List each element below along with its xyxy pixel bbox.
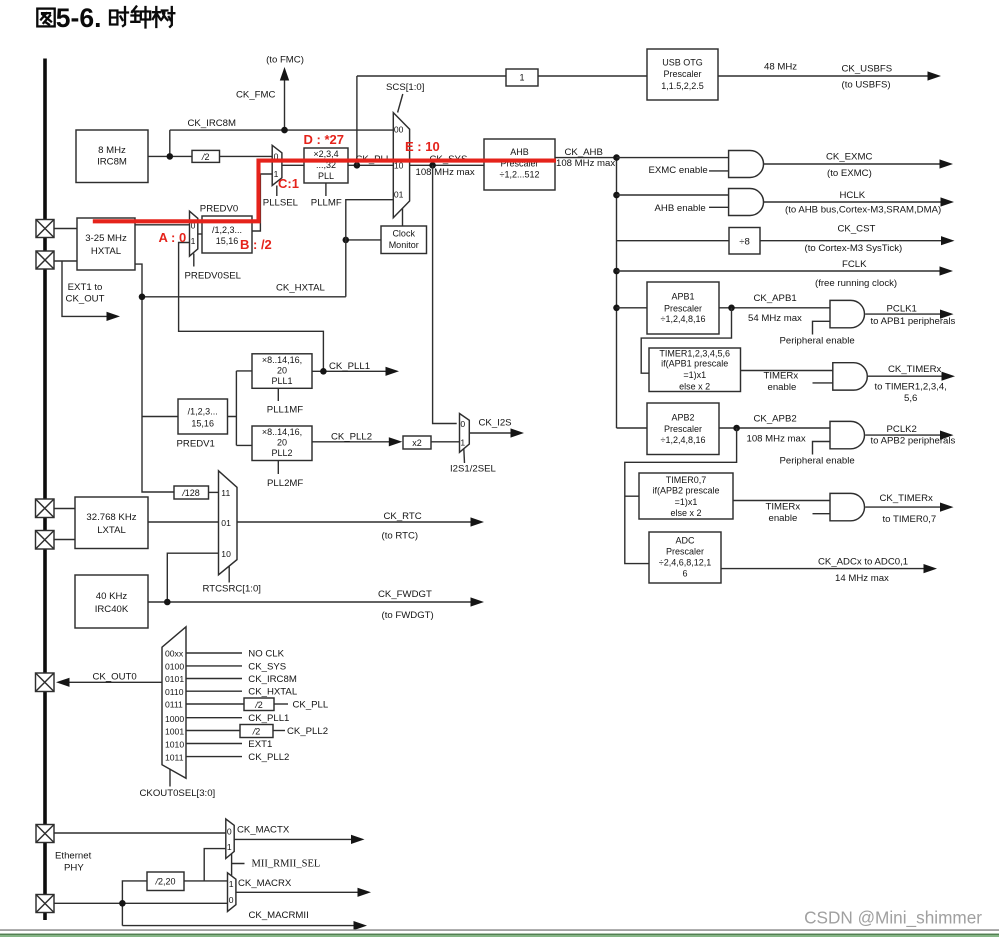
svg-text:HCLK: HCLK (840, 190, 866, 201)
mux MACTX (226, 819, 234, 859)
oscillator LXTAL box (75, 497, 148, 549)
gate EXMC AND (729, 151, 764, 178)
junction CK_APB2 tee (733, 425, 740, 432)
svg-text:/2: /2 (201, 152, 210, 162)
svg-text:to TIMER0,7: to TIMER0,7 (883, 514, 937, 525)
arrow PCLK2 (940, 431, 954, 440)
svg-text:×2,3,4: ×2,3,4 (313, 149, 338, 159)
svg-text:1: 1 (519, 73, 524, 83)
wire CK_ADC (721, 568, 924, 570)
svg-text:Prescaler: Prescaler (664, 303, 702, 313)
wire PREDV0SEL stub (193, 254, 195, 267)
svg-text:54 MHz max: 54 MHz max (748, 313, 802, 324)
wire CKOUT input CK_PLL2 (186, 756, 242, 758)
wire AHB trunk (616, 158, 618, 428)
svg-text:CK_IRC8M: CK_IRC8M (248, 674, 297, 685)
wire /128 to RTC mux input 11 (209, 491, 219, 493)
arrow CK_FWDGT (471, 597, 485, 606)
wire CKOUT input EXT1 (186, 743, 242, 745)
wire LXTAL pad1 (45, 508, 75, 510)
wire CK_TIMERx 1 (868, 375, 942, 377)
svg-text:CK_FMC: CK_FMC (236, 90, 276, 101)
svg-text:Prescaler: Prescaler (664, 424, 702, 434)
pad LXTAL pad2 (36, 531, 55, 550)
svg-text:(to AHB bus,Cortex-M3,SRAM,DMA: (to AHB bus,Cortex-M3,SRAM,DMA) (785, 205, 941, 216)
wire APB1 input (617, 307, 648, 309)
wire LXTAL to RTC mux input 01 (148, 521, 219, 523)
arrow EXT1 to CK_OUT (107, 312, 121, 321)
svg-text:if(APB1 prescale: if(APB1 prescale (661, 359, 728, 369)
mux RTCSRC (219, 471, 238, 575)
svg-text:SCS[1:0]: SCS[1:0] (386, 82, 424, 93)
svg-text:APB2: APB2 (671, 413, 694, 423)
svg-text:NO CLK: NO CLK (248, 649, 284, 660)
wire CK_MACRX (236, 891, 358, 893)
svg-text:CK_APB1: CK_APB1 (754, 293, 797, 304)
svg-text:(to Cortex-M3 SysTick): (to Cortex-M3 SysTick) (805, 243, 903, 254)
prescaler ADC box (649, 532, 721, 583)
svg-text:40 KHz: 40 KHz (96, 591, 128, 602)
wire CK_MACRMII (122, 925, 354, 927)
wire EXMC enable stub (709, 170, 729, 172)
svg-text:CK_MACRX: CK_MACRX (238, 878, 292, 889)
wire CK_MACTX (234, 838, 351, 840)
arrow HCLK (941, 197, 955, 206)
svg-text:6: 6 (682, 569, 687, 579)
wire CK_HXTAL horizontal (142, 296, 346, 298)
svg-text:(to EXMC): (to EXMC) (827, 168, 872, 179)
svg-text:=1)x1: =1)x1 (683, 370, 706, 380)
svg-text:CK_MACTX: CK_MACTX (237, 824, 290, 835)
wire CK_APB2 (719, 427, 830, 429)
svg-text:PREDV0SEL: PREDV0SEL (185, 271, 242, 282)
svg-text:D : *27: D : *27 (304, 132, 344, 147)
wire LXTAL pad2 (45, 539, 75, 541)
svg-text:1: 1 (191, 236, 196, 246)
wire SCS output CK_SYS (410, 164, 484, 166)
wire AHB enable stub (709, 206, 729, 208)
arrow CK_I2S (511, 428, 525, 437)
mux MACRX (228, 873, 236, 912)
oscillator HXTAL box (77, 218, 135, 270)
wire CKOUT input CK_HXTAL (186, 690, 242, 692)
svg-text:0: 0 (460, 419, 465, 429)
svg-text:TIMER0,7: TIMER0,7 (666, 475, 707, 485)
svg-text:to APB1 peripherals: to APB1 peripherals (871, 316, 956, 327)
svg-text:Peripheral enable: Peripheral enable (780, 336, 855, 347)
wire CK_APB2 to lower boxes (625, 428, 737, 564)
wire PLLSEL select stub (276, 186, 278, 197)
svg-text:0: 0 (227, 826, 232, 836)
wire TIMERx enable stub 1 (813, 382, 833, 384)
svg-text:CK_ADCx to ADC0,1: CK_ADCx to ADC0,1 (818, 557, 908, 568)
junction FCLK tee (613, 268, 620, 275)
pad HXTAL pad1 (36, 220, 54, 238)
arrow CK_USBFS (928, 71, 942, 80)
wire USB top run (357, 75, 506, 77)
junction CK_SYS I2S tee (429, 162, 436, 169)
svg-text:CK_HXTAL: CK_HXTAL (276, 283, 326, 294)
wire CK_USBFS (718, 75, 928, 77)
glyph 钟 (131, 7, 150, 28)
svg-text:÷1,2,4,8,16: ÷1,2,4,8,16 (661, 314, 706, 324)
svg-text:PHY: PHY (64, 863, 84, 874)
wire x2 to I2S mux input 1 (431, 441, 460, 443)
arrow CK_PLL1 (386, 367, 400, 376)
svg-text:/1,2,3...: /1,2,3... (212, 225, 242, 235)
title 图5-6. 时钟树 (hand-drawn CJK glyphs) (37, 7, 174, 28)
svg-text:=1)x1: =1)x1 (675, 497, 698, 507)
junction AHB enable tee (613, 192, 620, 199)
pad CK_OUT0 (36, 673, 55, 692)
oscillator IRC8M box (76, 130, 148, 183)
gate AHB AND (729, 189, 764, 216)
wire EXT1 annotation (62, 261, 108, 316)
divider /2 box (192, 150, 220, 162)
junction IRC8M tee (167, 153, 174, 160)
svg-text:/2: /2 (254, 700, 263, 710)
wire HXTAL out1 to PREDV0 input 0 (135, 224, 190, 226)
svg-text:PREDV0: PREDV0 (200, 204, 238, 215)
arrow CK_CST (941, 236, 955, 245)
svg-text:Prescaler: Prescaler (666, 547, 704, 557)
svg-text:÷1,2...512: ÷1,2...512 (500, 170, 540, 180)
arrow CK_PLL2 into x2 (389, 437, 403, 446)
svg-text:CK_PLL2: CK_PLL2 (287, 726, 328, 737)
wire CK_FWDGT (148, 601, 471, 603)
svg-text:48 MHz: 48 MHz (764, 62, 797, 73)
wire USB riser (356, 76, 358, 165)
mux PLLSEL (272, 145, 282, 185)
pll PLL2 box (252, 426, 312, 461)
divider /2,20 box (147, 872, 184, 891)
svg-text:1011: 1011 (165, 752, 184, 762)
wire CK_EXMC (764, 163, 941, 165)
svg-text:EXMC enable: EXMC enable (649, 165, 708, 176)
wire HXTAL out2 drop (135, 264, 174, 492)
svg-text:CK_CST: CK_CST (838, 224, 876, 235)
svg-text:/128: /128 (181, 488, 200, 498)
svg-text:enable: enable (768, 382, 797, 393)
mux CKOUT0SEL (162, 627, 186, 779)
junction CK_PLL1 tee (320, 368, 327, 375)
svg-text:RTCSRC[1:0]: RTCSRC[1:0] (203, 584, 261, 595)
prescaler APB2 box (647, 403, 719, 455)
wire CKOUT input CK_SYS (186, 665, 242, 667)
wire peripheral enable 1 (813, 321, 831, 334)
svg-text:ADC: ADC (675, 536, 695, 546)
svg-text:to APB2 peripherals: to APB2 peripherals (871, 436, 956, 447)
pad ETH pad1 (36, 825, 54, 843)
junction CK_APB1 tee (728, 305, 735, 312)
svg-text:1010: 1010 (165, 740, 184, 750)
wire /2 to CK_PLL label (274, 703, 288, 705)
wire TIMER1 output (741, 370, 833, 372)
svg-text:PCLK2: PCLK2 (887, 424, 917, 435)
wire PLL2MF stub (277, 461, 279, 475)
svg-text:PLL1: PLL1 (271, 376, 292, 386)
svg-text:CK_AHB: CK_AHB (565, 147, 603, 158)
junction CK_PLL USB tee (354, 162, 361, 169)
wire PLLMF stub (325, 183, 327, 196)
wire CK_RTC (237, 521, 471, 523)
svg-text:/1,2,3...: /1,2,3... (188, 407, 218, 417)
svg-text:0111: 0111 (165, 700, 183, 710)
svg-text:(to USBFS): (to USBFS) (842, 80, 891, 91)
pll PLL1 box (252, 354, 312, 389)
wire CK_SYS drop to I2S mux (433, 165, 457, 423)
svg-text:if(APB2 prescale: if(APB2 prescale (652, 486, 719, 496)
svg-text:(to FMC): (to FMC) (266, 55, 304, 66)
wire div8 input (617, 240, 730, 242)
svg-text:1001: 1001 (165, 727, 184, 737)
svg-text:IRC8M: IRC8M (97, 157, 127, 168)
svg-text:(free running clock): (free running clock) (815, 278, 897, 289)
wire clock monitor left input (346, 239, 381, 241)
svg-text:0100: 0100 (165, 662, 184, 672)
glyph 时 (110, 7, 128, 26)
svg-text:0110: 0110 (165, 687, 184, 697)
svg-text:/2: /2 (252, 727, 261, 737)
wire CK_HXTAL riser to SCS input 01 (346, 200, 394, 297)
svg-text:×8..14,16,: ×8..14,16, (262, 355, 302, 365)
svg-text:00: 00 (394, 124, 404, 134)
wire /2,20 output to MACRX input 1 (184, 880, 228, 882)
pll PLL box (304, 148, 348, 183)
svg-text:CK_PLL: CK_PLL (293, 700, 329, 711)
svg-text:×8..14,16,: ×8..14,16, (262, 427, 302, 437)
svg-text:CK_I2S: CK_I2S (479, 418, 512, 429)
divider 1 box (506, 69, 538, 86)
junction trunk top (613, 154, 620, 161)
divider PREDV0 box (202, 216, 252, 253)
svg-text:CK_FWDGT: CK_FWDGT (378, 589, 432, 600)
wire TIMER07 output (733, 500, 830, 502)
svg-text:0: 0 (229, 895, 234, 905)
wire peripheral enable 2 (813, 442, 831, 455)
svg-text:CK_RTC: CK_RTC (384, 511, 422, 522)
prescaler USB OTG box (647, 49, 718, 100)
wire APB2 input (617, 427, 648, 429)
wire MII_RMII_SEL select chain (232, 854, 245, 876)
wire CK_APB1 to TIMER1 box (641, 308, 731, 373)
wire ETH pad2 to MACRX mux input 0 (45, 902, 228, 904)
wire PREDV0 input 1 feed from CK_PLL1 (179, 243, 324, 372)
svg-text:FCLK: FCLK (842, 259, 867, 270)
wire PREDV1 output split (228, 371, 253, 446)
gate PCLK1 AND (830, 300, 865, 327)
svg-text:32.768 KHz: 32.768 KHz (86, 512, 136, 523)
junction IRC40K tee (164, 599, 171, 606)
svg-text:CK_USBFS: CK_USBFS (842, 63, 893, 74)
svg-text:14 MHz max: 14 MHz max (835, 573, 889, 584)
wire CKOUT input CK_IRC8M (186, 678, 242, 680)
wire red highlight path A-B-C-D-E (93, 161, 556, 222)
wire CK_OUT0 (66, 681, 162, 683)
svg-text:AHB: AHB (510, 147, 529, 157)
wire TIMERx enable stub 2 (813, 513, 831, 515)
arrow CK_MACRMII (354, 921, 368, 930)
svg-text:Prescaler: Prescaler (663, 69, 701, 79)
prescaler AHB box (484, 139, 555, 190)
pad LXTAL pad1 (36, 499, 55, 518)
svg-text:(to RTC): (to RTC) (382, 531, 419, 542)
wire AHB gate input A (617, 194, 730, 196)
glyph 图 (37, 9, 54, 27)
svg-text:I2S1/2SEL: I2S1/2SEL (450, 463, 497, 474)
svg-text:108 MHz max: 108 MHz max (556, 158, 615, 169)
svg-text:CK_SYS: CK_SYS (248, 661, 286, 672)
wire CK_IRC8M riser (169, 130, 171, 156)
wire CK_PLL2 to x2 (312, 441, 390, 443)
wire SCS select stub (398, 94, 403, 113)
svg-text:HXTAL: HXTAL (91, 246, 122, 257)
wire CK_PLL1 (312, 370, 386, 372)
wire CKOUT input CK_PLL2 div2 (186, 730, 240, 732)
svg-text:(to FWDGT): (to FWDGT) (382, 610, 434, 621)
oscillator IRC40K box (75, 575, 148, 628)
svg-text:CK_PLL1: CK_PLL1 (248, 713, 289, 724)
svg-text:APB1: APB1 (671, 292, 694, 302)
svg-text:TIMERx: TIMERx (766, 502, 801, 513)
wire PLL1MF stub (277, 388, 279, 401)
svg-text:TIMERx: TIMERx (764, 371, 799, 382)
arrow CK_MACTX (351, 835, 365, 844)
svg-text:A : 0: A : 0 (159, 230, 187, 245)
svg-text:CK_EXMC: CK_EXMC (826, 152, 872, 163)
svg-text:1000: 1000 (165, 714, 184, 724)
pad ETH pad2 (36, 895, 54, 913)
svg-text:01: 01 (394, 190, 404, 200)
multiplier x2 box (403, 436, 431, 449)
wire CKOUT input CK_PLL1 (186, 717, 242, 719)
svg-text:TIMER1,2,3,4,5,6: TIMER1,2,3,4,5,6 (659, 348, 730, 358)
junction clock monitor tee (343, 237, 350, 244)
svg-text:CKOUT0SEL[3:0]: CKOUT0SEL[3:0] (140, 788, 216, 799)
timer TIMER07 box (639, 473, 733, 519)
svg-text:15,16: 15,16 (216, 236, 239, 246)
svg-text:PLL: PLL (318, 171, 334, 181)
wire CKOUT input CK_PLL div2 (186, 703, 244, 705)
wire ETH pad1 to MACTX mux input 0 (45, 832, 226, 834)
glyph 树 (153, 7, 175, 27)
svg-text:USB OTG: USB OTG (662, 57, 703, 67)
wire MACTX input 1 feed (204, 849, 226, 881)
footer dark green rule (0, 934, 999, 935)
junction CK_FMC tee (281, 127, 288, 134)
arrow CK_TIMERx 1 (942, 372, 956, 381)
wire EXMC gate input A (617, 157, 730, 159)
wire SCS mux to clock monitor (402, 208, 404, 226)
wire RTCSRC select stub (228, 567, 230, 583)
svg-text:else x 2: else x 2 (670, 508, 701, 518)
gate TIMER07 AND (830, 493, 865, 520)
svg-text:AHB enable: AHB enable (655, 203, 706, 214)
svg-text:PLLSEL: PLLSEL (263, 198, 299, 209)
svg-text:10: 10 (221, 549, 231, 559)
svg-text:C:1: C:1 (278, 176, 299, 191)
svg-text:enable: enable (769, 513, 798, 524)
svg-text:108 MHz max: 108 MHz max (747, 433, 806, 444)
svg-text:IRC40K: IRC40K (95, 604, 129, 615)
gate PCLK2 AND (830, 421, 865, 448)
arrow PCLK1 (940, 310, 954, 319)
divider /128 box (174, 486, 209, 499)
divider /2 ckout pll2 box (240, 725, 273, 738)
svg-text:3-25 MHz: 3-25 MHz (85, 233, 127, 244)
svg-text:PLL1MF: PLL1MF (267, 405, 303, 416)
wire PREDV0 divider output riser (252, 174, 272, 231)
wire 1 box to USB prescaler (538, 75, 647, 77)
junction APB1 tee (613, 305, 620, 312)
wire CK_IRC8M to SCS mux input 00 (170, 129, 393, 131)
wire CKOUT0SEL select stub (169, 769, 171, 787)
junction ETH pad2 tee (119, 900, 126, 907)
svg-text:1: 1 (227, 842, 232, 852)
svg-text:CK_APB2: CK_APB2 (754, 413, 797, 424)
mux PREDV0 (190, 211, 198, 256)
wire CK_FMC (284, 80, 286, 130)
svg-text:8 MHz: 8 MHz (98, 145, 126, 156)
footer gray rule (0, 929, 999, 931)
svg-text:÷8: ÷8 (739, 236, 750, 247)
divider /2 ckout pll box (244, 698, 274, 711)
svg-text:CK_OUT: CK_OUT (66, 294, 105, 305)
mux I2S1/2SEL (460, 414, 470, 453)
svg-text:MII_RMII_SEL: MII_RMII_SEL (252, 859, 321, 870)
wire IRC8M output (148, 155, 192, 157)
wire HXTAL pad2 to box (45, 260, 77, 262)
svg-text:LXTAL: LXTAL (97, 525, 126, 536)
svg-text:PLL2MF: PLL2MF (267, 478, 303, 489)
svg-text:11: 11 (221, 488, 230, 498)
wire /2,20 input (122, 881, 147, 926)
arrow CK_EXMC (940, 159, 954, 168)
svg-text:B : /2: B : /2 (240, 237, 272, 252)
wire PREDV0 mux out (198, 233, 202, 235)
wire CKOUT input NO CLK (186, 652, 242, 654)
svg-text:EXT1 to: EXT1 to (68, 282, 103, 293)
gate TIMER1 AND (833, 363, 868, 390)
wire CK_I2S output (469, 432, 511, 434)
arrow CK_TIMERx 2 (940, 503, 954, 512)
svg-text:÷2,4,6,8,12,1: ÷2,4,6,8,12,1 (659, 558, 711, 568)
divider div8 box (729, 228, 760, 255)
svg-text:/2,20: /2,20 (154, 877, 175, 887)
svg-text:5,6: 5,6 (904, 393, 917, 404)
svg-text:00xx: 00xx (165, 649, 184, 659)
svg-text:E : 10: E : 10 (405, 139, 440, 154)
wire PCLK1 (865, 313, 940, 315)
arrow FCLK (940, 266, 954, 275)
svg-text:5-6.: 5-6. (56, 3, 102, 33)
svg-text:to TIMER1,2,3,4,: to TIMER1,2,3,4, (875, 382, 947, 393)
arrow CK_MACRX (358, 888, 372, 897)
svg-text:PCLK1: PCLK1 (887, 304, 917, 315)
wire PREDV1 feed tee (142, 416, 178, 418)
arrow CK_RTC (471, 517, 485, 526)
svg-text:0101: 0101 (165, 674, 184, 684)
arrow CK_FMC to FMC (280, 67, 289, 81)
svg-text:20: 20 (277, 366, 287, 376)
svg-text:108 MHz max: 108 MHz max (416, 167, 475, 178)
mux SCS system clock (393, 113, 409, 218)
svg-text:Clock: Clock (392, 229, 415, 239)
svg-text:PREDV1: PREDV1 (177, 439, 215, 450)
svg-text:CK_PLL2: CK_PLL2 (331, 432, 372, 443)
footer green band (0, 935, 999, 937)
svg-text:20: 20 (277, 438, 287, 448)
